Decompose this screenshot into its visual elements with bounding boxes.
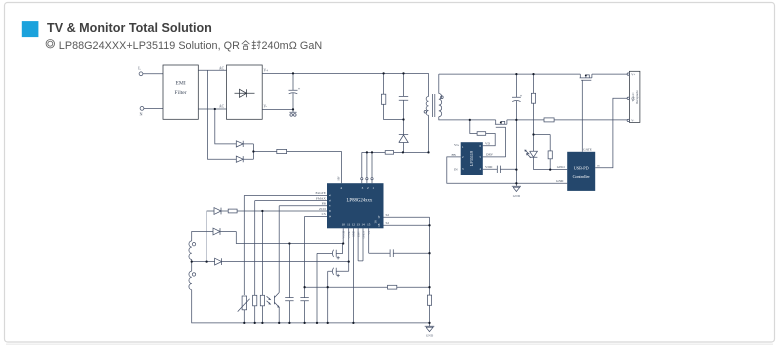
svg-text:Receptacle: Receptacle [635,90,639,104]
svg-text:10: 10 [342,223,346,227]
svg-text:11: 11 [347,223,350,227]
svg-text:VDD: VDD [485,165,493,169]
svg-text:LP88G24xxx: LP88G24xxx [346,199,372,204]
svg-text:18: 18 [377,223,381,227]
svg-text:USB-PD: USB-PD [574,165,589,170]
svg-text:GNDS: GNDS [362,231,365,239]
svg-text:VD: VD [485,142,490,146]
svg-text:L: L [138,65,141,70]
svg-text:FB: FB [452,153,457,157]
svg-text:GND: GND [513,194,521,198]
svg-text:GATE: GATE [583,147,592,151]
svg-text:IN: IN [454,168,458,172]
svg-text:S2: S2 [386,213,390,217]
svg-text:GND: GND [556,179,564,183]
svg-text:V-: V- [631,119,634,123]
svg-text:TV & Monitor Total Solution: TV & Monitor Total Solution [47,21,212,35]
svg-text:VS: VS [368,231,371,235]
svg-text:CS: CS [322,212,326,216]
svg-text:VCCH: VCCH [343,231,346,239]
svg-text:AC: AC [219,105,225,109]
svg-text:Filter: Filter [175,90,187,96]
svg-text:17: 17 [377,215,381,219]
svg-text:14: 14 [361,223,365,227]
svg-text:16: 16 [373,220,377,224]
svg-text:VCCL: VCCL [348,231,351,239]
svg-text:240mΩ GaN: 240mΩ GaN [262,40,323,52]
svg-text:S2: S2 [386,221,390,225]
svg-text:EMI: EMI [175,81,185,87]
svg-text:VG: VG [454,143,459,147]
svg-text:FB: FB [322,202,327,206]
svg-text:cc: cc [597,164,601,168]
svg-text:Controller: Controller [573,174,591,179]
svg-text:ExGTE: ExGTE [315,191,325,195]
svg-text:V+: V+ [264,69,269,73]
svg-text:13: 13 [357,223,361,227]
svg-text:DRV: DRV [486,153,493,157]
svg-text:12: 12 [352,223,356,227]
svg-text:LP88G24XXX+LP35119 Solution, Q: LP88G24XXX+LP35119 Solution, QR [59,40,240,52]
svg-text:AC: AC [219,67,225,71]
svg-text:ZCD: ZCD [319,207,326,211]
svg-text:N: N [140,111,143,116]
svg-text:GPIO: GPIO [557,165,565,169]
svg-text:FMAX: FMAX [316,196,326,200]
svg-text:GND: GND [353,231,356,237]
svg-text:V+: V+ [631,72,635,76]
svg-text:DRV: DRV [357,231,360,237]
svg-text:GND: GND [426,334,434,338]
svg-text:LP35119: LP35119 [469,151,474,166]
svg-text:15: 15 [367,223,371,227]
